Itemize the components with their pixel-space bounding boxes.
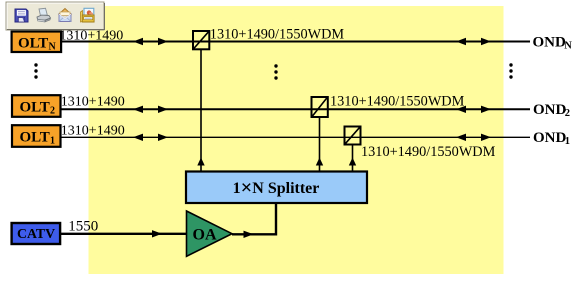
vertical dots right xyxy=(509,63,512,78)
svg-text:1×N Splitter: 1×N Splitter xyxy=(233,177,320,199)
WDM coupler 1 (on line 1) xyxy=(193,31,209,49)
svg-text:2: 2 xyxy=(50,105,55,116)
toolbar panel xyxy=(6,2,105,30)
svg-text:OLT: OLT xyxy=(20,130,50,146)
OLT_1 box xyxy=(12,125,61,147)
wire OLT_N to OND_N (line 1) xyxy=(61,41,530,43)
wire WDM3 down to splitter xyxy=(352,145,354,172)
svg-text:1550: 1550 xyxy=(68,219,98,235)
vertical dots left (between OLT_2 and OLT_N) xyxy=(34,63,37,78)
yellow diagram background xyxy=(89,6,504,274)
toolbar icon: print (printer) xyxy=(37,8,51,22)
svg-text:N: N xyxy=(49,41,57,52)
OLT_2 box xyxy=(12,95,61,117)
svg-text:1310+1490: 1310+1490 xyxy=(59,29,123,44)
wire WDM1 down to splitter xyxy=(200,49,202,171)
toolbar icon: mail (open envelope) xyxy=(59,9,71,22)
arrow pair left on line 2 xyxy=(133,106,143,113)
wire OLT_1 to OND_1 (line 3) xyxy=(61,136,531,138)
svg-text:OND: OND xyxy=(533,34,567,50)
WDM coupler 3 (on line 3) xyxy=(345,127,361,145)
wire splitter bottom to OA output corner xyxy=(232,203,276,234)
svg-text:1310+1490/1550WDM: 1310+1490/1550WDM xyxy=(330,94,465,110)
arrowhead up (wire WDM3) xyxy=(349,158,356,166)
wire WDM2 down to splitter xyxy=(319,117,321,171)
svg-text:1: 1 xyxy=(565,136,570,147)
CATV box xyxy=(12,223,61,244)
svg-text:1310+1490/1550WDM: 1310+1490/1550WDM xyxy=(210,27,345,43)
toolbar icon: save (floppy disk) xyxy=(15,9,28,22)
arrow pair right on line 1 xyxy=(456,38,466,45)
wire CATV to OA xyxy=(60,233,187,235)
vertical dots middle xyxy=(274,64,277,79)
arrow pair right on line 2 xyxy=(456,106,466,113)
arrowhead right (OA output wire) xyxy=(244,231,254,238)
svg-text:2: 2 xyxy=(565,108,570,119)
svg-text:N: N xyxy=(564,41,572,52)
splitter U1 (1xN Splitter) xyxy=(186,172,367,204)
toolbar icon: open file (folder with picture) xyxy=(81,8,95,22)
WDM coupler 2 (on line 2) xyxy=(312,97,328,117)
svg-text:1: 1 xyxy=(50,135,55,146)
arrowhead up (wire WDM1) xyxy=(197,158,204,166)
svg-text:1310+1490/1550WDM: 1310+1490/1550WDM xyxy=(361,144,496,160)
svg-text:1310+1490: 1310+1490 xyxy=(61,94,125,109)
svg-text:OND: OND xyxy=(533,130,567,146)
arrow pair right on line 3 xyxy=(456,134,466,141)
optical amplifier OA xyxy=(187,211,233,256)
arrow pair left on line 3 xyxy=(133,134,143,141)
arrowhead up (wire WDM2) xyxy=(316,158,323,166)
svg-text:1310+1490: 1310+1490 xyxy=(61,123,125,138)
wire OLT_2 to OND_2 (line 2) xyxy=(61,108,531,110)
svg-text:OLT: OLT xyxy=(20,100,50,116)
svg-text:OA: OA xyxy=(193,226,217,243)
OLT_N box xyxy=(12,32,62,53)
svg-text:CATV: CATV xyxy=(17,226,55,241)
svg-text:OND: OND xyxy=(533,102,567,118)
svg-text:OLT: OLT xyxy=(18,36,48,52)
arrowhead right (CATV wire) xyxy=(152,230,162,237)
arrow pair left on line 1 xyxy=(133,38,143,45)
